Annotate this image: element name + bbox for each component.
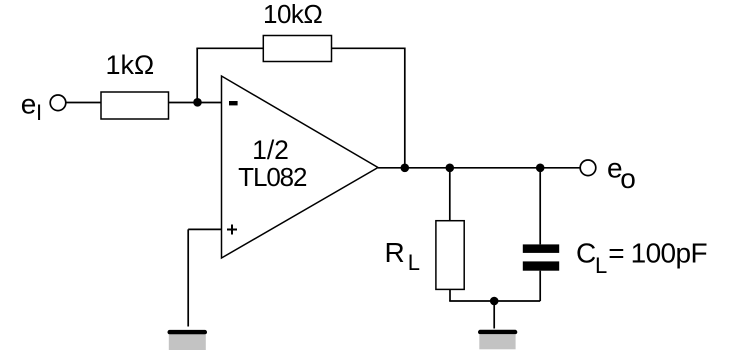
capacitor CL bottom plate: [523, 261, 559, 270]
wire op-amp plus input: [188, 228, 221, 230]
svg-text:L: L: [408, 250, 420, 275]
wire node CL to capacitor: [539, 168, 541, 245]
svg-text:100pF: 100pF: [631, 237, 707, 268]
wire RL bottom to rail: [449, 289, 451, 301]
ground right: [478, 330, 517, 335]
output terminal e_o: [580, 160, 596, 176]
svg-text:L: L: [595, 253, 607, 278]
node feedback junction dot: [401, 164, 410, 173]
svg-text:o: o: [620, 163, 636, 194]
wire node A to op-amp inverting input: [198, 102, 222, 104]
wire capacitor bottom to rail: [539, 271, 541, 301]
wire R1 to node A: [169, 102, 198, 104]
svg-text:1/2: 1/2: [252, 135, 289, 165]
wire R2 to corner: [332, 47, 406, 49]
svg-text:e: e: [21, 89, 37, 120]
svg-text:R: R: [385, 237, 405, 268]
op-amp U1 triangle: [222, 76, 379, 258]
node A junction dot: [193, 98, 202, 107]
op-amp plus input symbol: [227, 225, 237, 235]
svg-text:C: C: [576, 237, 596, 268]
resistor R2 10kΩ: [263, 36, 331, 62]
wire to R2: [196, 47, 263, 49]
node RL junction dot: [446, 164, 455, 173]
svg-text:TL082: TL082: [238, 162, 307, 192]
ground left: [168, 330, 208, 335]
resistor R1 1kΩ: [101, 92, 169, 119]
rail junction dot: [490, 297, 499, 306]
wire feedback drop to output: [404, 48, 406, 168]
wire node A up to feedback: [196, 48, 198, 102]
node CL junction dot: [536, 164, 545, 173]
op-amp minus input symbol: [229, 101, 238, 105]
wire plus input down to ground: [187, 229, 189, 326]
ground stub wire: [493, 301, 495, 329]
resistor RL: [436, 221, 464, 290]
wire to RL: [449, 168, 451, 221]
svg-text:=: =: [608, 237, 624, 268]
svg-text:I: I: [36, 100, 42, 125]
svg-text:1kΩ: 1kΩ: [106, 50, 155, 80]
svg-text:10kΩ: 10kΩ: [263, 0, 322, 29]
capacitor CL top plate: [523, 244, 559, 253]
bottom rail wire: [449, 300, 540, 302]
wire input terminal to R1: [66, 102, 101, 104]
output wire: [378, 167, 580, 169]
input terminal e_I: [50, 95, 66, 111]
